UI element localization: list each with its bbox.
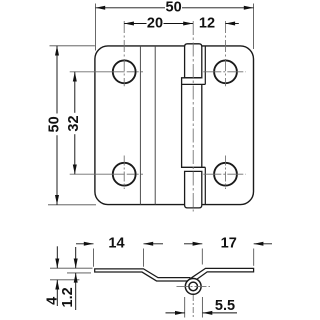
barrel centerline horizontal xyxy=(177,285,211,287)
svg-text:17: 17 xyxy=(221,236,237,252)
barrel centerline vertical xyxy=(192,295,194,318)
knuckle middle segment xyxy=(182,78,206,168)
screw hole top-right xyxy=(214,60,237,83)
dimension 12 outside arrow xyxy=(225,23,238,25)
dimension 14 xyxy=(76,243,94,245)
extension line 17 left xyxy=(201,249,203,265)
extension line thickness bottom xyxy=(67,272,91,274)
svg-text:32: 32 xyxy=(66,115,82,131)
svg-text:20: 20 xyxy=(147,16,163,32)
extension line height bottom xyxy=(48,204,96,206)
svg-text:14: 14 xyxy=(108,236,124,252)
section view: left leaf strip with crank xyxy=(95,269,190,281)
svg-text:50: 50 xyxy=(166,0,182,16)
extension line 5.5 left xyxy=(184,297,186,318)
hole centerline horizontal top-right xyxy=(203,71,246,73)
hole centerline horizontal bottom-left with 32 extension xyxy=(70,173,143,175)
extension line 5.5 right xyxy=(201,297,203,318)
section view: hinge pin xyxy=(189,282,198,291)
extension line height top xyxy=(50,45,95,47)
extension line width left xyxy=(95,4,97,51)
pin centerline xyxy=(192,21,194,212)
right leaf inner edge lower xyxy=(204,167,206,204)
hole centerline vertical top-right xyxy=(225,21,227,86)
svg-text:4: 4 xyxy=(45,297,61,305)
section view: barrel outer curl xyxy=(185,279,201,295)
dimension 50 top line xyxy=(96,7,166,9)
svg-text:50: 50 xyxy=(47,116,63,132)
dimension 1.2 xyxy=(75,247,77,268)
knuckle top segment xyxy=(185,44,202,78)
screw hole bottom-right xyxy=(214,163,237,186)
svg-text:1.2: 1.2 xyxy=(60,287,76,307)
hole centerline vertical top-left xyxy=(123,21,125,86)
svg-text:12: 12 xyxy=(199,16,215,32)
hole centerline horizontal top-left with 32 extension xyxy=(70,71,143,73)
dimension 5.5 xyxy=(166,312,185,314)
dimension 50 left line xyxy=(56,46,58,114)
knuckle collar line xyxy=(182,83,206,85)
section view: right leaf strip xyxy=(192,268,254,280)
svg-text:5.5: 5.5 xyxy=(215,298,235,314)
extension line crank bottom xyxy=(50,279,79,281)
extension line width right xyxy=(253,4,255,50)
extension line 14 left xyxy=(93,249,95,267)
leaf crank bend line left xyxy=(139,46,141,205)
right leaf inner edge upper xyxy=(204,46,206,85)
hole centerline vertical bottom-left xyxy=(123,156,125,190)
knuckle bottom segment xyxy=(185,171,202,208)
dimension 32 line xyxy=(74,72,76,113)
hole centerline horizontal bottom-right xyxy=(203,173,246,175)
screw hole bottom-left xyxy=(113,163,136,186)
extension line thickness top xyxy=(50,267,93,269)
leaf crank bend line right xyxy=(154,46,156,205)
screw hole top-left xyxy=(113,60,136,83)
dimension 20 line xyxy=(124,23,146,25)
hole centerline vertical bottom-right xyxy=(225,156,227,190)
hinge leaf plate outline (top view) xyxy=(95,46,254,205)
dimension 4 xyxy=(56,246,58,268)
extension line 14 right xyxy=(143,249,145,267)
dimension 17 xyxy=(184,243,202,245)
knuckle middle segment right edge xyxy=(201,84,203,167)
extension line 17 right xyxy=(253,249,255,266)
